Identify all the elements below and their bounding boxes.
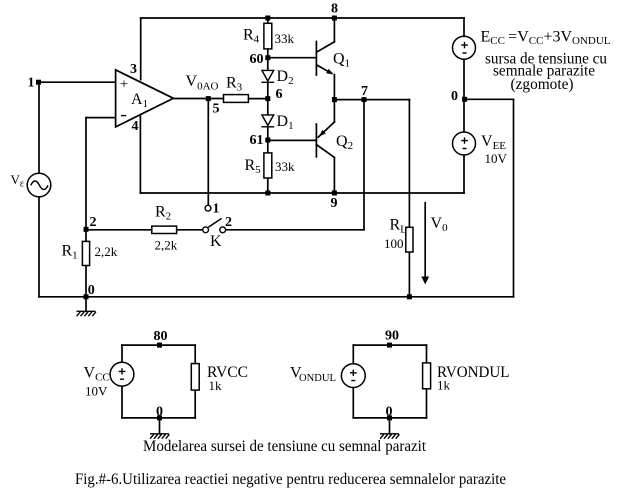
svg-text:ONDUL: ONDUL: [299, 372, 336, 384]
svg-text:100: 100: [384, 236, 404, 251]
svg-text:1k: 1k: [437, 378, 451, 393]
svg-text:Modelarea sursei de tensiune c: Modelarea sursei de tensiune cu semnal p…: [143, 438, 427, 455]
svg-text:6: 6: [276, 87, 283, 102]
svg-text:9: 9: [331, 196, 338, 211]
svg-text:60: 60: [250, 52, 264, 67]
svg-text:0: 0: [88, 283, 95, 298]
svg-text:33k: 33k: [275, 31, 295, 46]
svg-text:(zgomote): (zgomote): [511, 76, 574, 93]
svg-text:61: 61: [250, 133, 264, 148]
svg-text:2,2k: 2,2k: [155, 238, 178, 253]
svg-text:1k: 1k: [209, 378, 223, 393]
svg-text:2: 2: [225, 215, 232, 230]
svg-text:0: 0: [451, 89, 458, 104]
svg-text:5: 5: [213, 102, 220, 117]
svg-text:0: 0: [386, 405, 393, 420]
svg-text:10V: 10V: [85, 384, 108, 399]
svg-text:0: 0: [156, 405, 163, 420]
svg-text:2: 2: [90, 215, 97, 230]
svg-text:7: 7: [361, 84, 368, 99]
svg-text:2,2k: 2,2k: [95, 244, 118, 259]
svg-text:Fig.#-6.Utilizarea reactiei ne: Fig.#-6.Utilizarea reactiei negative pen…: [75, 471, 506, 488]
svg-text:+: +: [120, 77, 128, 93]
svg-text:3: 3: [130, 62, 137, 77]
svg-text:80: 80: [154, 329, 168, 344]
svg-text:1: 1: [28, 76, 35, 91]
svg-text:K: K: [210, 233, 222, 250]
svg-text:1: 1: [213, 202, 220, 217]
svg-text:4: 4: [132, 119, 139, 134]
svg-text:90: 90: [385, 329, 399, 344]
svg-text:8: 8: [331, 2, 338, 17]
svg-text:33k: 33k: [275, 159, 295, 174]
svg-text:10V: 10V: [485, 151, 508, 166]
